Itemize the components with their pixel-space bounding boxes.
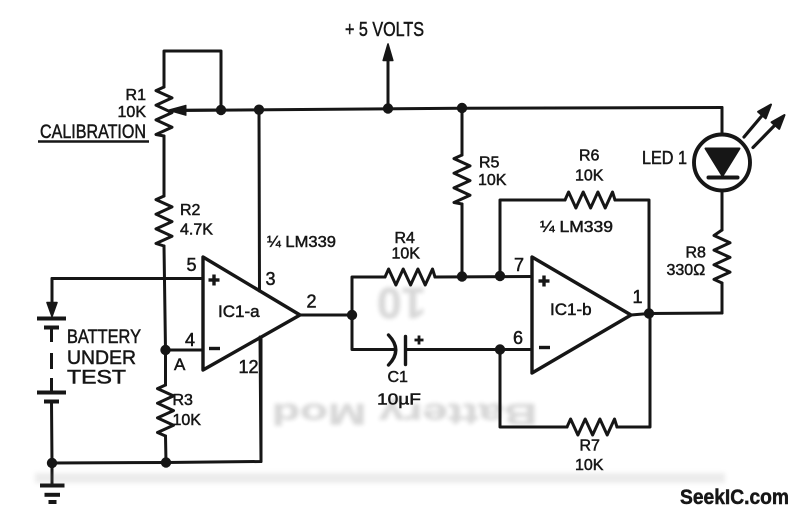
junction +5V arrow on rail	[383, 103, 393, 113]
junction R5 bottom	[457, 271, 467, 281]
wire C1 to pin 6	[406, 348, 533, 351]
svg-text:5: 5	[186, 255, 196, 275]
wire R8 to output	[721, 283, 724, 313]
svg-text:R4: R4	[395, 230, 416, 247]
resistor R7	[567, 419, 617, 435]
svg-text:IC1-a: IC1-a	[218, 302, 260, 321]
svg-text:LED 1: LED 1	[642, 148, 687, 168]
svg-text:4: 4	[185, 330, 195, 350]
wire R4 to pin 7	[435, 275, 532, 279]
LED light arrow lower	[753, 124, 776, 148]
resistor R4	[385, 269, 435, 285]
svg-text:10K: 10K	[173, 412, 202, 429]
wire R6 feedback loop	[500, 200, 565, 276]
wire pin 3	[258, 110, 262, 291]
svg-text:¼ LM339: ¼ LM339	[540, 219, 613, 236]
junction battery ground	[47, 458, 57, 468]
svg-text:UNDER: UNDER	[67, 348, 136, 369]
wire battery plus to pin 5	[52, 277, 203, 280]
node A junction	[160, 345, 170, 355]
svg-text:R8: R8	[686, 245, 707, 262]
junction IC1-b output node	[644, 308, 654, 318]
junction R5 on rail	[457, 103, 467, 113]
resistor R2	[156, 196, 172, 246]
svg-text:Battery Mod: Battery Mod	[272, 397, 537, 430]
wire output pin 1	[631, 313, 722, 315]
svg-text:SeekIC.com: SeekIC.com	[680, 486, 789, 509]
junction R3 ground	[161, 457, 171, 467]
resistor R5	[454, 155, 470, 204]
svg-text:C1: C1	[388, 369, 409, 386]
junction C1 pin 6 node	[495, 344, 505, 354]
svg-text:10K: 10K	[575, 168, 604, 185]
svg-text:10: 10	[377, 278, 426, 327]
svg-text:2: 2	[307, 292, 317, 312]
resistor R1	[156, 87, 172, 136]
svg-text:10K: 10K	[575, 457, 604, 474]
wire R1 to R2	[163, 136, 166, 196]
junction IC1-a output node	[347, 310, 357, 320]
wire R7 feedback loop	[500, 350, 567, 428]
svg-text:10K: 10K	[478, 172, 507, 189]
svg-text:¼ LM339: ¼ LM339	[267, 234, 336, 251]
svg-text:12: 12	[239, 357, 259, 377]
junction R6 branch	[495, 271, 505, 281]
ground	[40, 463, 65, 502]
wire bottom ground rail	[52, 337, 261, 463]
op-amp IC1-b	[532, 257, 631, 373]
svg-text:1: 1	[633, 287, 643, 307]
power +5 VOLTS arrow	[387, 57, 390, 109]
label C1	[415, 336, 424, 345]
svg-text:10K: 10K	[118, 104, 147, 121]
wire R1 wiper arm	[184, 109, 221, 112]
svg-text:R5: R5	[479, 155, 500, 172]
wire output node up to R4	[352, 277, 385, 315]
svg-text:R3: R3	[173, 392, 194, 409]
wire R1 top loop	[164, 51, 221, 110]
op-amp IC1-a	[203, 257, 300, 370]
label IC1-b minus input	[539, 346, 550, 349]
wire R6 to output	[615, 200, 649, 314]
svg-text:330Ω: 330Ω	[667, 262, 706, 279]
wire pin 12	[260, 337, 261, 462]
wire node A to R3	[164, 350, 167, 385]
label IC1-a plus input	[209, 275, 220, 286]
label IC1-a minus input	[209, 347, 220, 350]
capacitor C1	[389, 335, 396, 365]
resistor R3	[158, 385, 174, 436]
svg-text:4.7K: 4.7K	[180, 222, 213, 239]
wire rail to R5	[461, 108, 464, 155]
wire R2 to node A	[164, 246, 166, 350]
resistor R8	[714, 230, 730, 283]
wire R5 to pin 7 node	[461, 204, 464, 277]
svg-text:TEST: TEST	[67, 368, 126, 389]
battery BATTERY UNDER TEST	[37, 319, 66, 402]
LED light arrow upper	[744, 115, 763, 138]
svg-text:R6: R6	[579, 148, 600, 165]
wire battery minus down	[50, 402, 54, 464]
wire R7 to output	[617, 314, 650, 428]
LED LED1	[694, 135, 750, 191]
svg-text:IC1-b: IC1-b	[550, 300, 592, 319]
wire R8 to LED	[721, 191, 724, 231]
svg-text:R7: R7	[580, 438, 601, 455]
wire pin 4 from node A	[166, 349, 204, 352]
wire R3 to ground rail	[164, 436, 168, 463]
svg-text:A: A	[174, 355, 186, 374]
svg-text:+ 5 VOLTS: + 5 VOLTS	[345, 19, 424, 41]
svg-text:6: 6	[513, 328, 523, 348]
svg-text:BATTERY: BATTERY	[67, 327, 141, 348]
junction pin 3 branch on rail	[254, 105, 264, 115]
svg-text:CALIBRATION: CALIBRATION	[40, 122, 146, 143]
wire output node down to C1	[352, 315, 394, 350]
wire rail corner down to LED	[721, 108, 724, 135]
scan bleed-through artifacts	[272, 278, 537, 430]
wire output pin 2	[300, 314, 352, 317]
svg-text:7: 7	[514, 255, 524, 275]
label IC1-b plus input	[539, 276, 550, 287]
resistor R6	[565, 192, 615, 208]
wire top supply rail	[174, 108, 722, 111]
wire battery lead down with arrow	[51, 279, 54, 304]
svg-text:10K: 10K	[392, 246, 421, 263]
junction R1 loop on rail	[216, 105, 226, 115]
svg-text:R1: R1	[126, 87, 147, 104]
svg-text:R2: R2	[180, 202, 201, 219]
svg-text:3: 3	[266, 269, 276, 289]
